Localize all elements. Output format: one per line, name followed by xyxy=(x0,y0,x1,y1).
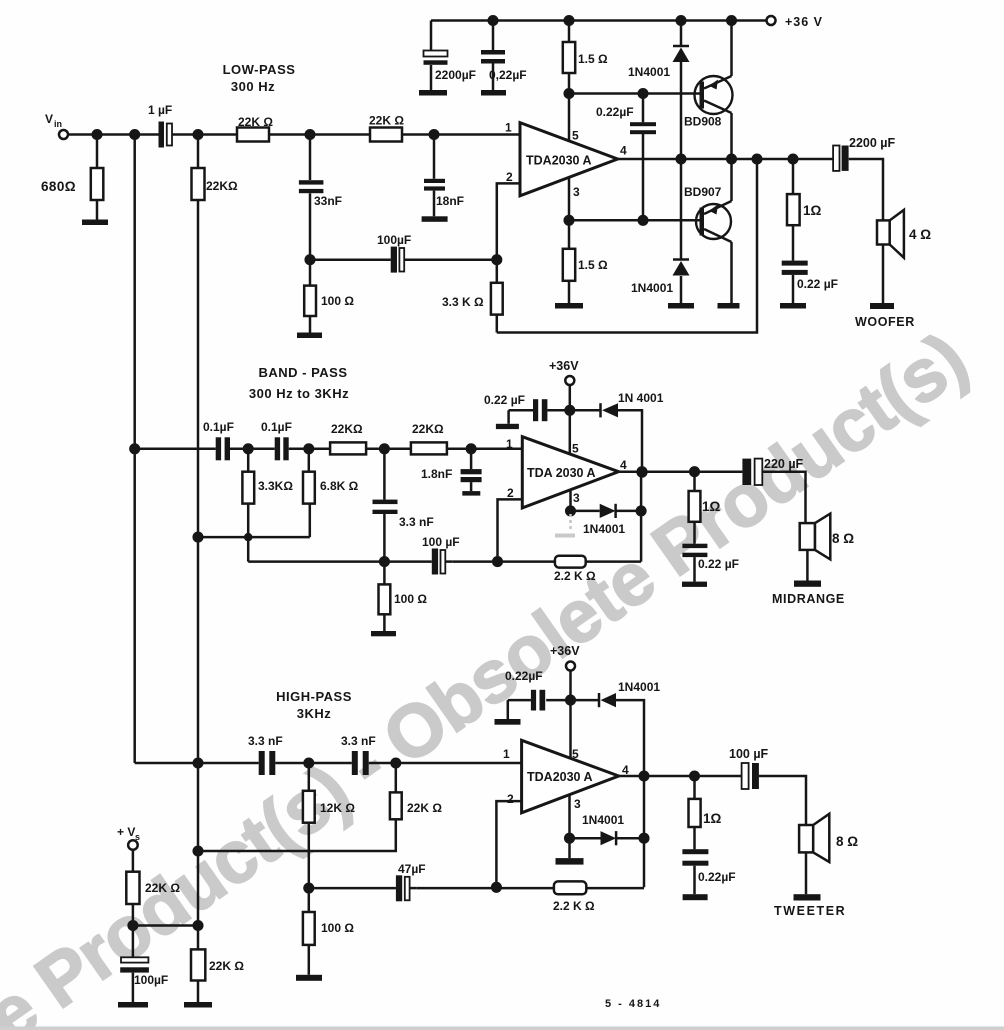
svg-text:2200µF: 2200µF xyxy=(435,68,476,82)
resistor 2.2K HP xyxy=(554,881,586,894)
svg-text:0.22 µF: 0.22 µF xyxy=(797,277,838,291)
terminal +36V BP xyxy=(565,376,574,385)
ground under 680 ohm xyxy=(82,220,108,226)
node after 1uF xyxy=(194,130,203,139)
node 1.8nF top xyxy=(467,445,476,454)
ground under BP zobel xyxy=(682,582,707,587)
node diode HP lower right xyxy=(640,834,649,843)
svg-text:1N4001: 1N4001 xyxy=(582,813,624,827)
svg-text:1N 4001: 1N 4001 xyxy=(618,391,664,405)
node 0.22uF mid top xyxy=(639,89,648,98)
svg-text:1Ω: 1Ω xyxy=(702,499,721,514)
capacitor 100uF HP output xyxy=(742,763,749,789)
svg-text:3.3KΩ: 3.3KΩ xyxy=(258,479,293,493)
node supply HP xyxy=(566,696,575,705)
resistor 680 ohm xyxy=(96,135,99,220)
node divider on line B xyxy=(194,921,203,930)
ground under HP zobel xyxy=(683,894,708,900)
svg-text:8 Ω: 8 Ω xyxy=(832,531,854,546)
svg-text:TDA2030 A: TDA2030 A xyxy=(526,154,592,168)
wire divider link xyxy=(133,924,198,927)
svg-text:1Ω: 1Ω xyxy=(803,203,822,218)
capacitor 0.1uF second xyxy=(275,437,280,460)
svg-text:5: 5 xyxy=(572,747,579,761)
wire diode row HP lower xyxy=(570,837,645,840)
svg-text:WOOFER: WOOFER xyxy=(855,315,915,329)
svg-text:3.3 K Ω: 3.3 K Ω xyxy=(442,295,484,309)
resistor 6.8K BP xyxy=(309,449,310,537)
svg-text:100µF: 100µF xyxy=(134,973,168,987)
svg-text:5: 5 xyxy=(572,442,579,456)
wire base row lower xyxy=(569,219,700,222)
wire line A vertical (input to band/high pass) xyxy=(133,135,136,764)
resistor 12K HP xyxy=(308,763,311,888)
svg-text:22K Ω: 22K Ω xyxy=(238,115,273,129)
svg-text:5: 5 xyxy=(572,129,579,143)
capacitor 0.1uF first xyxy=(216,437,221,460)
svg-text:2: 2 xyxy=(506,170,513,184)
node rail 1.5 ohm xyxy=(565,16,574,25)
svg-text:3.3 nF: 3.3 nF xyxy=(341,734,376,748)
title HIGH-PASS 3KHz xyxy=(276,689,352,721)
diode 1N4001 BP upper xyxy=(599,403,602,417)
scan edge bottom xyxy=(0,1027,1004,1030)
wire output row BP xyxy=(619,472,806,523)
svg-text:12K Ω: 12K Ω xyxy=(320,801,355,815)
resistor 3.3K LP xyxy=(496,260,499,333)
svg-text:0.22µF: 0.22µF xyxy=(596,105,634,119)
wire input row xyxy=(68,133,520,136)
ground under 22K bottom xyxy=(184,1002,212,1008)
title LOW-PASS 300 Hz xyxy=(223,62,296,94)
svg-text:100 µF: 100 µF xyxy=(422,535,460,549)
svg-text:0,22µF: 0,22µF xyxy=(489,68,527,82)
watermark Obsolete Product(s) xyxy=(0,317,981,1030)
resistor 1 ohm zobel LP xyxy=(792,159,795,261)
svg-text:1Ω: 1Ω xyxy=(703,811,722,826)
svg-text:4 Ω: 4 Ω xyxy=(909,227,931,242)
svg-text:1N4001: 1N4001 xyxy=(618,680,660,694)
wire output row HP xyxy=(619,776,806,825)
ground under 0.22uF rail xyxy=(481,90,506,96)
resistor 22K from +Vs xyxy=(132,850,135,926)
svg-text:3.3 nF: 3.3 nF xyxy=(248,734,283,748)
capacitor 100uF bottom xyxy=(132,926,135,1003)
diode 1N4001 BP lower xyxy=(600,504,616,518)
svg-text:5 - 4814: 5 - 4814 xyxy=(605,998,661,1010)
resistor 22K bottom of line B xyxy=(191,949,205,980)
wire pin2 BP xyxy=(498,499,523,561)
svg-text:100 Ω: 100 Ω xyxy=(394,592,427,606)
node 3.3nF bottom on rail B xyxy=(380,557,389,566)
svg-text:1N4001: 1N4001 xyxy=(631,281,673,295)
svg-text:HIGH-PASS: HIGH-PASS xyxy=(276,689,352,704)
ground under 100uF bottom xyxy=(118,1002,148,1008)
svg-text:2: 2 xyxy=(507,486,514,500)
capacitor 100uF BP feedback xyxy=(432,549,438,575)
svg-text:0.22 µF: 0.22 µF xyxy=(698,557,739,571)
resistor 22K HP shunt xyxy=(198,763,396,851)
wire rail B feedback row BP xyxy=(248,472,641,561)
svg-text:22K Ω: 22K Ω xyxy=(145,881,180,895)
resistor 100 ohm LP xyxy=(309,260,312,333)
ground under 2200uF xyxy=(419,90,447,96)
svg-text:22K Ω: 22K Ω xyxy=(209,959,244,973)
svg-text:in: in xyxy=(54,119,62,129)
svg-text:+36V: +36V xyxy=(550,644,580,658)
resistor 100 ohm HP xyxy=(308,888,311,975)
input terminal Vin xyxy=(59,130,68,139)
node output BP xyxy=(638,467,647,476)
node rail diode xyxy=(677,16,686,25)
svg-text:3: 3 xyxy=(573,185,580,199)
wire pin3 LP xyxy=(568,177,571,220)
node 12K top xyxy=(305,759,314,768)
wire pin2 HP xyxy=(496,801,521,887)
speaker woofer 4 ohm xyxy=(877,220,890,244)
op-amp U2 TDA2030A xyxy=(522,437,618,508)
svg-text:e Product(s) - Obsolete Produc: e Product(s) - Obsolete Product(s) xyxy=(0,317,981,1030)
svg-text:BAND - PASS: BAND - PASS xyxy=(258,365,347,380)
capacitor 2200uF output xyxy=(833,146,839,171)
wire supply row HP xyxy=(546,700,644,776)
node diode BP lower right xyxy=(637,507,646,516)
ground under 100 ohm HP xyxy=(296,975,322,981)
capacitor 33nF xyxy=(309,135,312,260)
node 22K HP top xyxy=(392,759,401,768)
svg-text:BD907: BD907 xyxy=(684,185,722,199)
capacitor 3.3nF HP first xyxy=(259,751,265,775)
terminal +36V HP xyxy=(566,662,575,671)
svg-text:1.5 Ω: 1.5 Ω xyxy=(578,52,608,66)
ground under 0.22uF HP xyxy=(495,719,521,725)
svg-text:100 Ω: 100 Ω xyxy=(321,294,354,308)
node after second 0.1uF xyxy=(305,445,314,454)
node output BP diode top xyxy=(638,468,647,477)
svg-text:100 µF: 100 µF xyxy=(729,747,769,761)
capacitor 0.22uF HP decouple xyxy=(531,690,536,711)
svg-text:LOW-PASS: LOW-PASS xyxy=(223,62,296,77)
ground under BD907 xyxy=(718,303,740,309)
ground under 1.8nF xyxy=(462,491,480,496)
capacitor 3.3nF HP second xyxy=(352,751,358,775)
node fb left xyxy=(306,255,315,264)
wire pin3 HP xyxy=(568,795,571,838)
svg-text:V: V xyxy=(45,112,53,126)
node 3.3nF top xyxy=(380,445,389,454)
node rail 0.22uF xyxy=(489,16,498,25)
svg-text:1.5 Ω: 1.5 Ω xyxy=(578,258,608,272)
node input junction 1 xyxy=(93,130,102,139)
wire line B vertical (bias rail) xyxy=(197,135,200,950)
wire rail A bias link xyxy=(198,536,310,539)
figure number 5-4814 xyxy=(605,998,661,1010)
capacitor 1.8nF BP xyxy=(470,449,473,491)
svg-text:s: s xyxy=(135,832,140,842)
node output BD collectors xyxy=(727,155,736,164)
ground under zobel LP xyxy=(780,303,806,309)
capacitor 2200uF rail xyxy=(430,21,433,91)
node pin3/1.5ohm lower xyxy=(565,216,574,225)
resistor 22K BP series 2 xyxy=(411,442,447,454)
speaker tweeter 8 ohm xyxy=(799,825,813,852)
svg-text:1 µF: 1 µF xyxy=(148,103,172,117)
node rail BD908 emitter xyxy=(727,16,736,25)
svg-text:2200 µF: 2200 µF xyxy=(849,136,895,150)
ground under 100 ohm BP xyxy=(371,631,396,636)
node after first 0.1uF xyxy=(244,445,253,454)
svg-text:1N4001: 1N4001 xyxy=(583,522,625,536)
svg-text:2.2 K Ω: 2.2 K Ω xyxy=(553,899,595,913)
svg-text:22K Ω: 22K Ω xyxy=(407,801,442,815)
resistor 2.2K BP xyxy=(555,556,586,568)
svg-text:3: 3 xyxy=(573,491,580,505)
svg-text:680Ω: 680Ω xyxy=(41,179,76,194)
svg-text:220 µF: 220 µF xyxy=(764,457,804,471)
wire supply row BP xyxy=(547,410,642,472)
node 33nF junction xyxy=(306,130,315,139)
capacitor 220uF BP output xyxy=(742,459,751,485)
node divider left xyxy=(129,921,138,930)
svg-text:+36V: +36V xyxy=(549,359,579,373)
resistor 22K BP series 1 xyxy=(330,442,366,454)
svg-text:2.2 K Ω: 2.2 K Ω xyxy=(554,569,596,583)
terminal +36V xyxy=(767,16,776,25)
node 12K bottom xyxy=(305,884,314,893)
svg-text:100µF: 100µF xyxy=(377,233,411,247)
wire band-pass input row xyxy=(135,448,523,451)
node pin3 BP xyxy=(566,507,575,516)
capacitor 3.3nF BP xyxy=(383,449,386,562)
node zobel HP xyxy=(690,772,699,781)
svg-text:3.3 nF: 3.3 nF xyxy=(399,515,434,529)
resistor 1 ohm HP xyxy=(693,776,696,849)
op-amp U3 TDA2030A xyxy=(522,740,619,813)
svg-text:4: 4 xyxy=(620,144,627,158)
svg-text:1N4001: 1N4001 xyxy=(628,65,670,79)
wire pin3 BP xyxy=(569,490,572,511)
svg-text:22KΩ: 22KΩ xyxy=(412,422,444,436)
svg-text:4: 4 xyxy=(620,458,627,472)
speaker midrange 8 ohm xyxy=(800,523,815,550)
svg-text:0.22µF: 0.22µF xyxy=(698,870,736,884)
node bias link on line B xyxy=(194,847,203,856)
capacitor 100uF LP feedback xyxy=(391,247,397,273)
wire high-pass input row xyxy=(135,762,522,765)
svg-text:BD908: BD908 xyxy=(684,115,722,129)
ground under 0.22uF BP xyxy=(496,424,519,429)
node pin2 BP on rail B xyxy=(493,557,502,566)
transistor Q2 BD907 xyxy=(696,204,731,239)
resistor 100 ohm BP xyxy=(383,562,386,631)
node output diode xyxy=(677,155,686,164)
wire feedback row HP xyxy=(309,776,644,888)
capacitor 1uF xyxy=(159,122,165,148)
svg-text:300 Hz: 300 Hz xyxy=(231,79,275,94)
diode 1N4001 lower xyxy=(680,159,683,303)
node zobel BP xyxy=(690,467,699,476)
svg-text:+ V: + V xyxy=(117,825,135,839)
resistor 1.5 ohm upper xyxy=(568,21,571,94)
capacitor 0.22uF mid xyxy=(642,94,645,221)
svg-text:MIDRANGE: MIDRANGE xyxy=(772,592,845,606)
node input junction 2 xyxy=(130,130,139,139)
svg-text:33nF: 33nF xyxy=(314,194,342,208)
node fb right pin2 xyxy=(493,255,502,264)
svg-text:100 Ω: 100 Ω xyxy=(321,921,354,935)
resistor 22K series 2 xyxy=(370,128,402,142)
resistor 1 ohm BP xyxy=(693,472,696,544)
wire feedback return to output xyxy=(497,159,757,333)
svg-text:0.1µF: 0.1µF xyxy=(261,420,292,434)
wire pin5 supply HP xyxy=(569,671,572,759)
diode 1N4001 HP lower xyxy=(601,831,617,845)
svg-text:6.8K Ω: 6.8K Ω xyxy=(320,479,359,493)
op-amp U1 TDA2030A xyxy=(520,123,618,196)
resistor 22K series 1 xyxy=(237,128,269,142)
svg-text:22KΩ: 22KΩ xyxy=(331,422,363,436)
node output feedback xyxy=(753,155,762,164)
ground pin3 HP xyxy=(568,838,571,858)
ground under diode lower xyxy=(668,303,694,309)
wire diode row BP lower xyxy=(571,510,642,513)
capacitor 0.22uF HP zobel xyxy=(682,849,708,854)
svg-text:TDA 2030 A: TDA 2030 A xyxy=(527,466,596,480)
node output zobel xyxy=(789,155,798,164)
ghost ground pin3 BP xyxy=(569,514,572,531)
ground under 100 ohm LP xyxy=(297,333,322,339)
wire +36V top rail xyxy=(431,19,767,22)
node pin2 HP xyxy=(492,883,501,892)
svg-text:0.1µF: 0.1µF xyxy=(203,420,234,434)
svg-text:TWEETER: TWEETER xyxy=(774,904,846,918)
node rail A 3.3K crossing xyxy=(245,534,251,540)
svg-text:+36 V: +36 V xyxy=(785,15,823,29)
wire base row upper xyxy=(569,92,700,95)
terminal +Vs xyxy=(128,840,138,850)
node pin5/1.5ohm xyxy=(565,89,574,98)
svg-text:1.8nF: 1.8nF xyxy=(421,467,452,481)
svg-text:47µF: 47µF xyxy=(398,862,426,876)
node rail A on line B xyxy=(194,533,203,542)
resistor 3.3K BP xyxy=(247,449,250,562)
node supply BP xyxy=(566,406,575,415)
capacitor 0.22uF zobel LP xyxy=(782,261,808,266)
node output HP xyxy=(640,772,649,781)
node 18nF junction xyxy=(430,130,439,139)
node band-pass tap on line A xyxy=(130,445,139,454)
ground under 1.5 ohm lower xyxy=(555,303,583,309)
svg-text:3KHz: 3KHz xyxy=(297,706,332,721)
ground under 18nF xyxy=(422,216,448,222)
svg-text:1: 1 xyxy=(503,747,510,761)
node pin3 HP xyxy=(565,834,574,843)
node 0.22uF mid bottom xyxy=(639,216,648,225)
svg-text:0.22µF: 0.22µF xyxy=(505,669,543,683)
capacitor 18nF xyxy=(433,135,436,217)
ground under tweeter xyxy=(794,894,821,900)
capacitor 0.22uF BP zobel xyxy=(682,544,707,548)
svg-text:1: 1 xyxy=(505,121,512,135)
node line B on HP row xyxy=(194,759,203,768)
svg-text:22KΩ: 22KΩ xyxy=(206,179,238,193)
wire pin5 LP xyxy=(568,94,571,142)
svg-text:1: 1 xyxy=(506,437,513,451)
transistor Q1 BD908 xyxy=(695,76,733,114)
resistor 22K shunt after 1uF xyxy=(192,168,205,200)
svg-text:TDA2030 A: TDA2030 A xyxy=(527,770,593,784)
svg-text:18nF: 18nF xyxy=(436,194,464,208)
ground under midrange xyxy=(794,581,821,587)
svg-text:3: 3 xyxy=(574,797,581,811)
wire pin5 supply BP xyxy=(569,385,572,454)
capacitor 47uF HP feedback xyxy=(396,875,402,901)
wire feedback row LP xyxy=(310,258,497,261)
title BAND-PASS 300 Hz to 3KHz xyxy=(249,365,349,401)
resistor 1.5 ohm lower xyxy=(568,220,571,303)
svg-text:2: 2 xyxy=(507,792,514,806)
capacitor 0.22uF BP decouple xyxy=(533,399,538,421)
ground under woofer xyxy=(870,303,894,309)
diode 1N4001 upper xyxy=(680,21,683,160)
wire output row LP xyxy=(618,159,883,220)
svg-text:8 Ω: 8 Ω xyxy=(836,834,858,849)
wire pin2 LP xyxy=(497,183,520,259)
svg-text:0.22 µF: 0.22 µF xyxy=(484,393,525,407)
diode 1N4001 HP upper xyxy=(598,693,601,707)
svg-text:300 Hz to 3KHz: 300 Hz to 3KHz xyxy=(249,386,349,401)
capacitor 0.22uF rail xyxy=(492,21,495,91)
svg-text:22K Ω: 22K Ω xyxy=(369,114,404,128)
